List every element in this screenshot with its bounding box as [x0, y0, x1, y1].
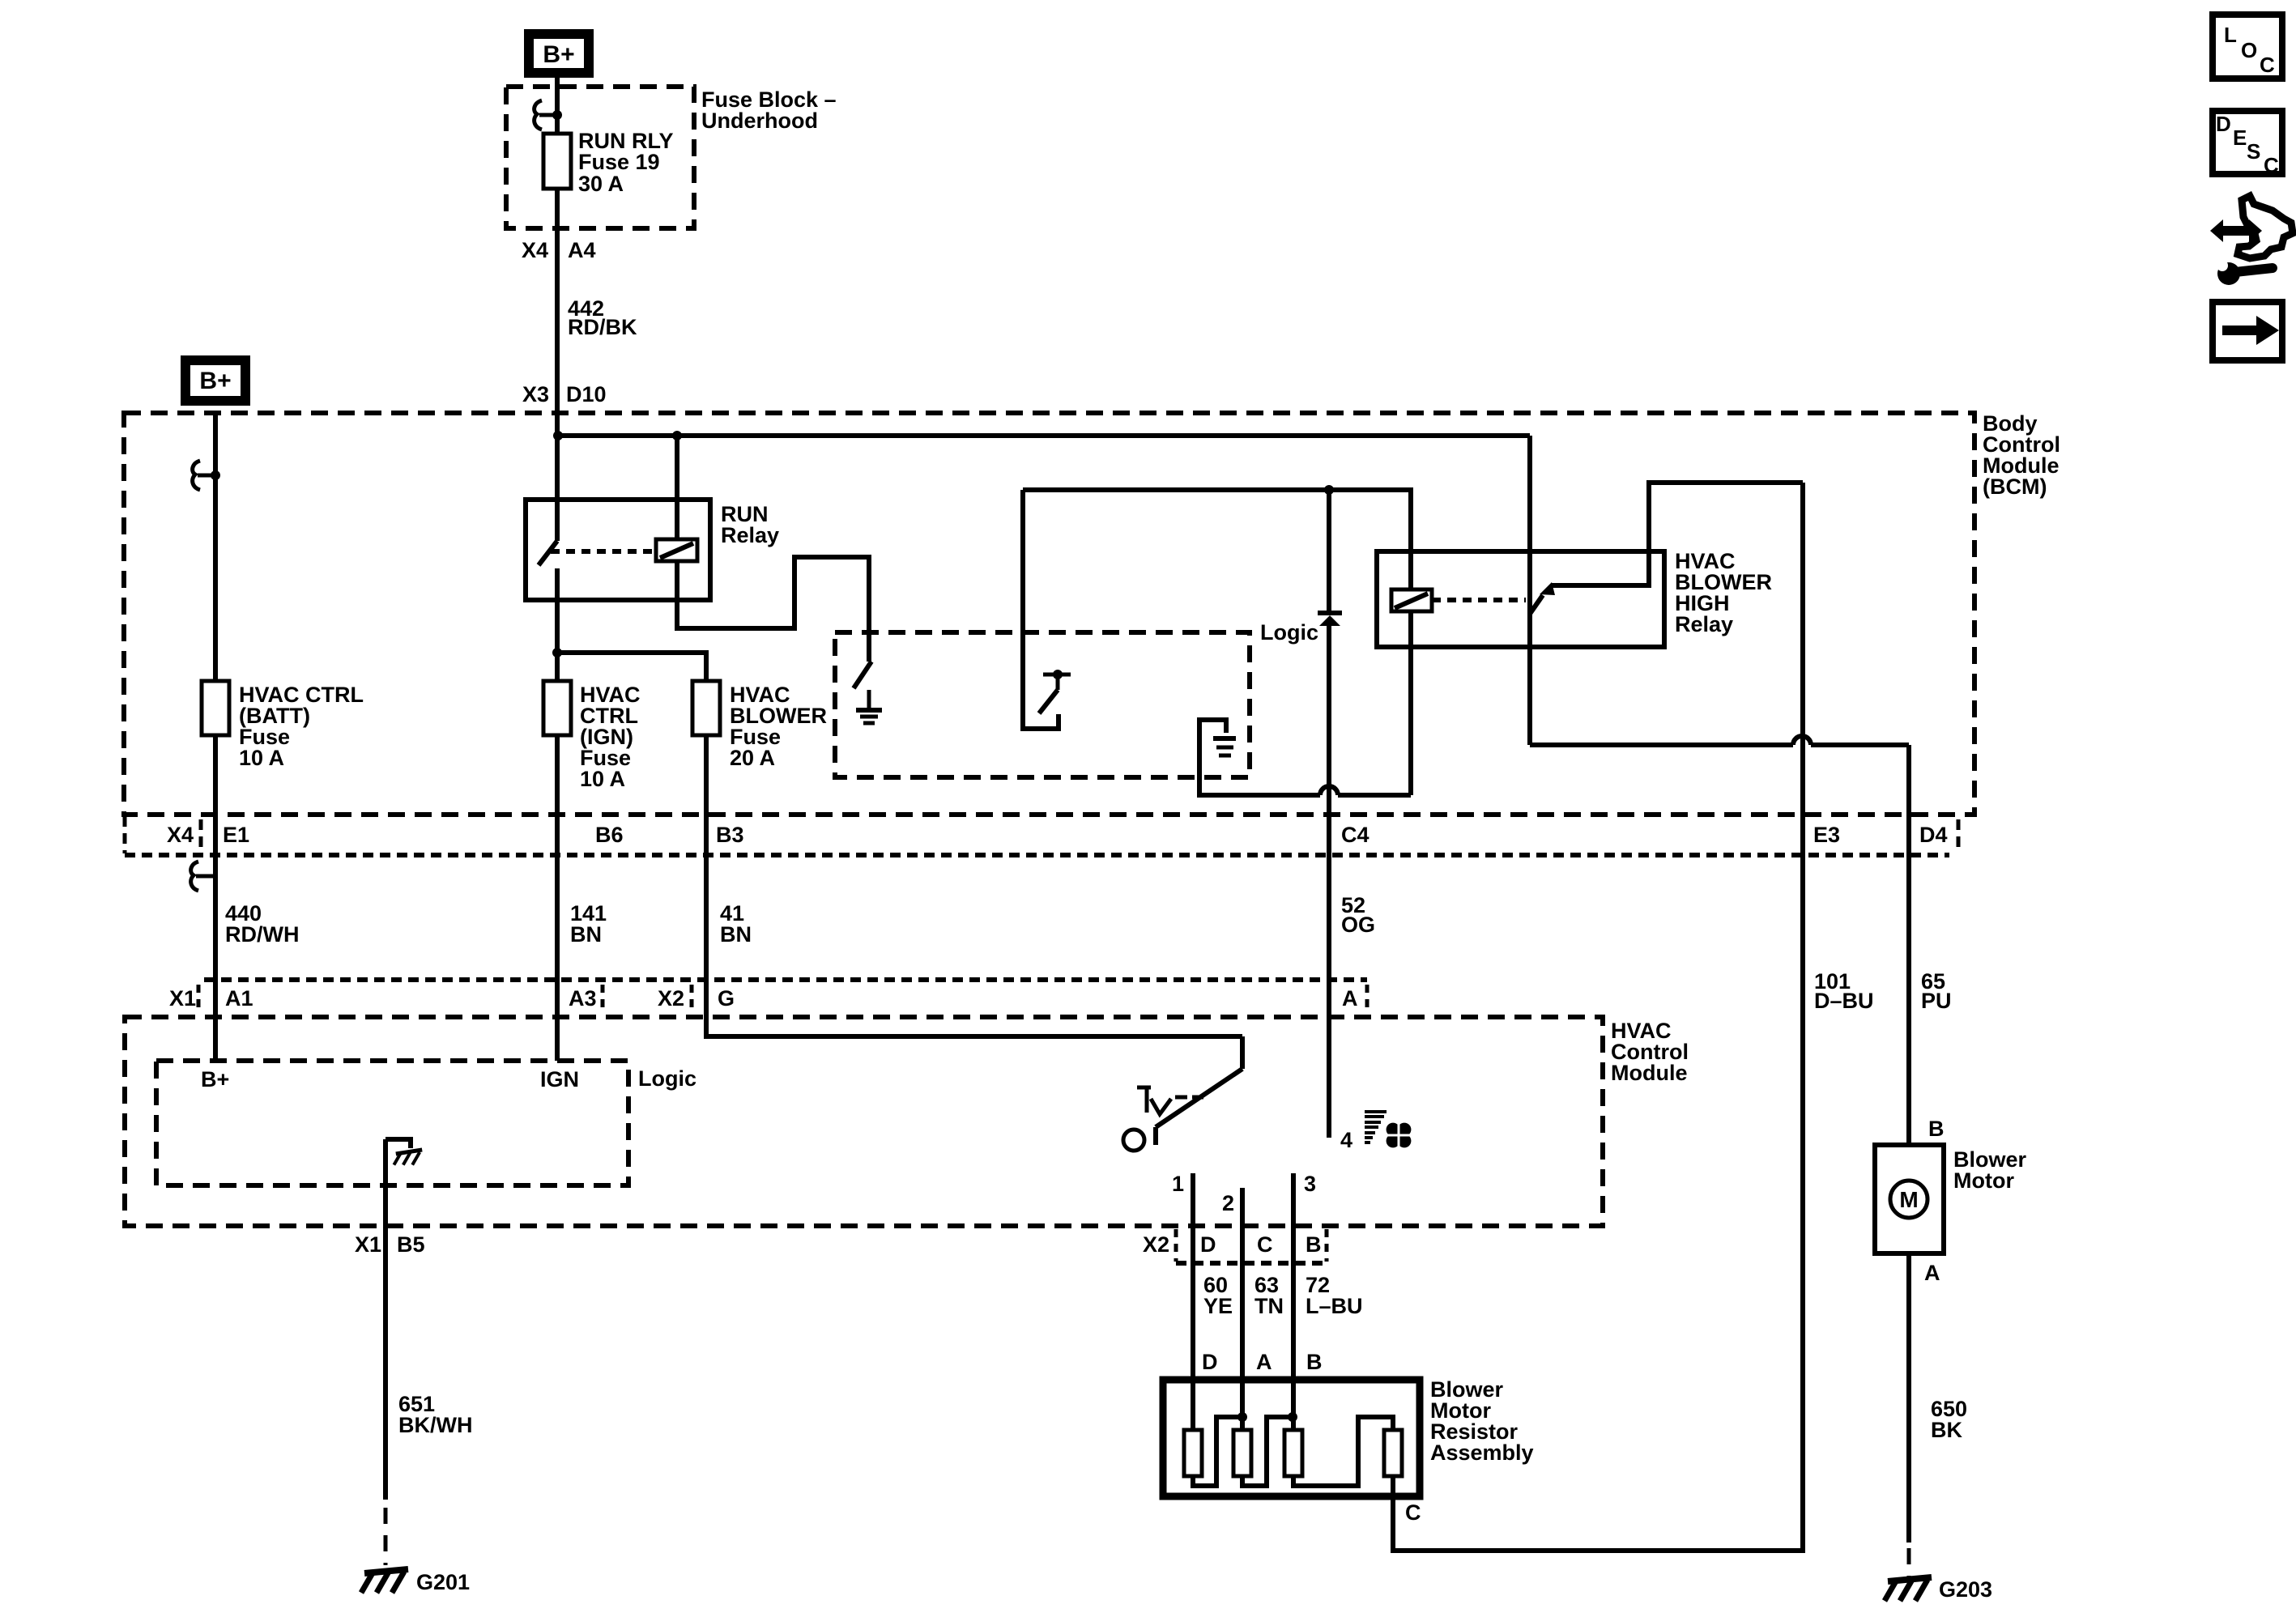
svg-text:4: 4 — [1340, 1128, 1352, 1152]
svg-text:Motor: Motor — [1953, 1168, 2014, 1193]
svg-text:D4: D4 — [1919, 823, 1948, 847]
svg-text:BK/WH: BK/WH — [398, 1413, 472, 1437]
svg-text:L–BU: L–BU — [1306, 1294, 1363, 1318]
svg-text:D10: D10 — [566, 382, 607, 406]
svg-text:D: D — [1202, 1350, 1218, 1374]
svg-text:1: 1 — [1172, 1172, 1184, 1196]
svg-text:B: B — [1306, 1350, 1323, 1374]
svg-text:B+: B+ — [201, 1067, 229, 1091]
svg-text:C: C — [2260, 53, 2275, 77]
svg-text:3: 3 — [1304, 1172, 1316, 1196]
svg-text:B: B — [1306, 1232, 1322, 1257]
svg-text:B5: B5 — [397, 1232, 425, 1257]
svg-text:B3: B3 — [716, 823, 744, 847]
svg-text:2: 2 — [1222, 1191, 1234, 1215]
svg-text:RD/BK: RD/BK — [568, 315, 637, 339]
svg-text:L: L — [2224, 23, 2237, 47]
svg-text:E: E — [2233, 126, 2247, 150]
svg-text:10 A: 10 A — [239, 746, 284, 770]
svg-text:A: A — [1924, 1261, 1940, 1285]
svg-text:A3: A3 — [569, 986, 597, 1011]
svg-text:RD/WH: RD/WH — [225, 922, 299, 947]
svg-text:X4: X4 — [167, 823, 194, 847]
svg-text:Module: Module — [1611, 1061, 1688, 1085]
svg-text:E3: E3 — [1813, 823, 1840, 847]
svg-text:A4: A4 — [568, 238, 596, 262]
svg-text:TN: TN — [1254, 1294, 1284, 1318]
svg-text:Relay: Relay — [721, 523, 779, 547]
svg-text:BN: BN — [720, 922, 752, 947]
svg-text:X4: X4 — [522, 238, 548, 262]
svg-text:BK: BK — [1931, 1418, 1962, 1442]
svg-text:20 A: 20 A — [730, 746, 775, 770]
svg-text:S: S — [2247, 139, 2260, 164]
svg-text:30 A: 30 A — [578, 172, 624, 196]
svg-text:Fuse 19: Fuse 19 — [578, 150, 660, 174]
svg-text:10 A: 10 A — [580, 767, 625, 791]
svg-text:M: M — [1899, 1187, 1918, 1212]
svg-text:YE: YE — [1203, 1294, 1233, 1318]
svg-text:B+: B+ — [199, 368, 231, 394]
svg-text:G203: G203 — [1939, 1577, 1992, 1602]
svg-text:(BCM): (BCM) — [1983, 474, 2047, 499]
svg-text:D: D — [1200, 1232, 1216, 1257]
svg-text:PU: PU — [1921, 989, 1952, 1013]
svg-text:A: A — [1256, 1350, 1272, 1374]
svg-text:B6: B6 — [595, 823, 624, 847]
svg-text:B+: B+ — [543, 41, 574, 68]
svg-text:O: O — [2241, 38, 2257, 62]
svg-text:E1: E1 — [223, 823, 249, 847]
svg-text:X1: X1 — [169, 986, 196, 1011]
svg-text:Logic: Logic — [638, 1066, 696, 1091]
svg-text:G: G — [718, 986, 735, 1011]
svg-text:IGN: IGN — [540, 1067, 579, 1091]
svg-text:BN: BN — [570, 922, 602, 947]
svg-text:OG: OG — [1341, 913, 1375, 937]
svg-text:C: C — [2264, 153, 2279, 177]
svg-text:C: C — [1257, 1232, 1273, 1257]
svg-text:C: C — [1405, 1500, 1421, 1525]
svg-text:Logic: Logic — [1260, 620, 1318, 645]
svg-text:D: D — [2216, 112, 2231, 136]
svg-text:Underhood: Underhood — [701, 109, 818, 133]
svg-text:Assembly: Assembly — [1430, 1440, 1534, 1465]
svg-text:X1: X1 — [355, 1232, 381, 1257]
svg-text:X2: X2 — [1143, 1232, 1169, 1257]
svg-text:G201: G201 — [416, 1570, 470, 1594]
svg-text:A: A — [1342, 986, 1358, 1011]
svg-text:Relay: Relay — [1675, 612, 1733, 636]
svg-text:A1: A1 — [225, 986, 253, 1011]
svg-text:X2: X2 — [658, 986, 684, 1011]
svg-text:C4: C4 — [1341, 823, 1370, 847]
svg-text:B: B — [1928, 1117, 1945, 1141]
svg-text:D–BU: D–BU — [1814, 989, 1874, 1013]
svg-text:X3: X3 — [522, 382, 549, 406]
